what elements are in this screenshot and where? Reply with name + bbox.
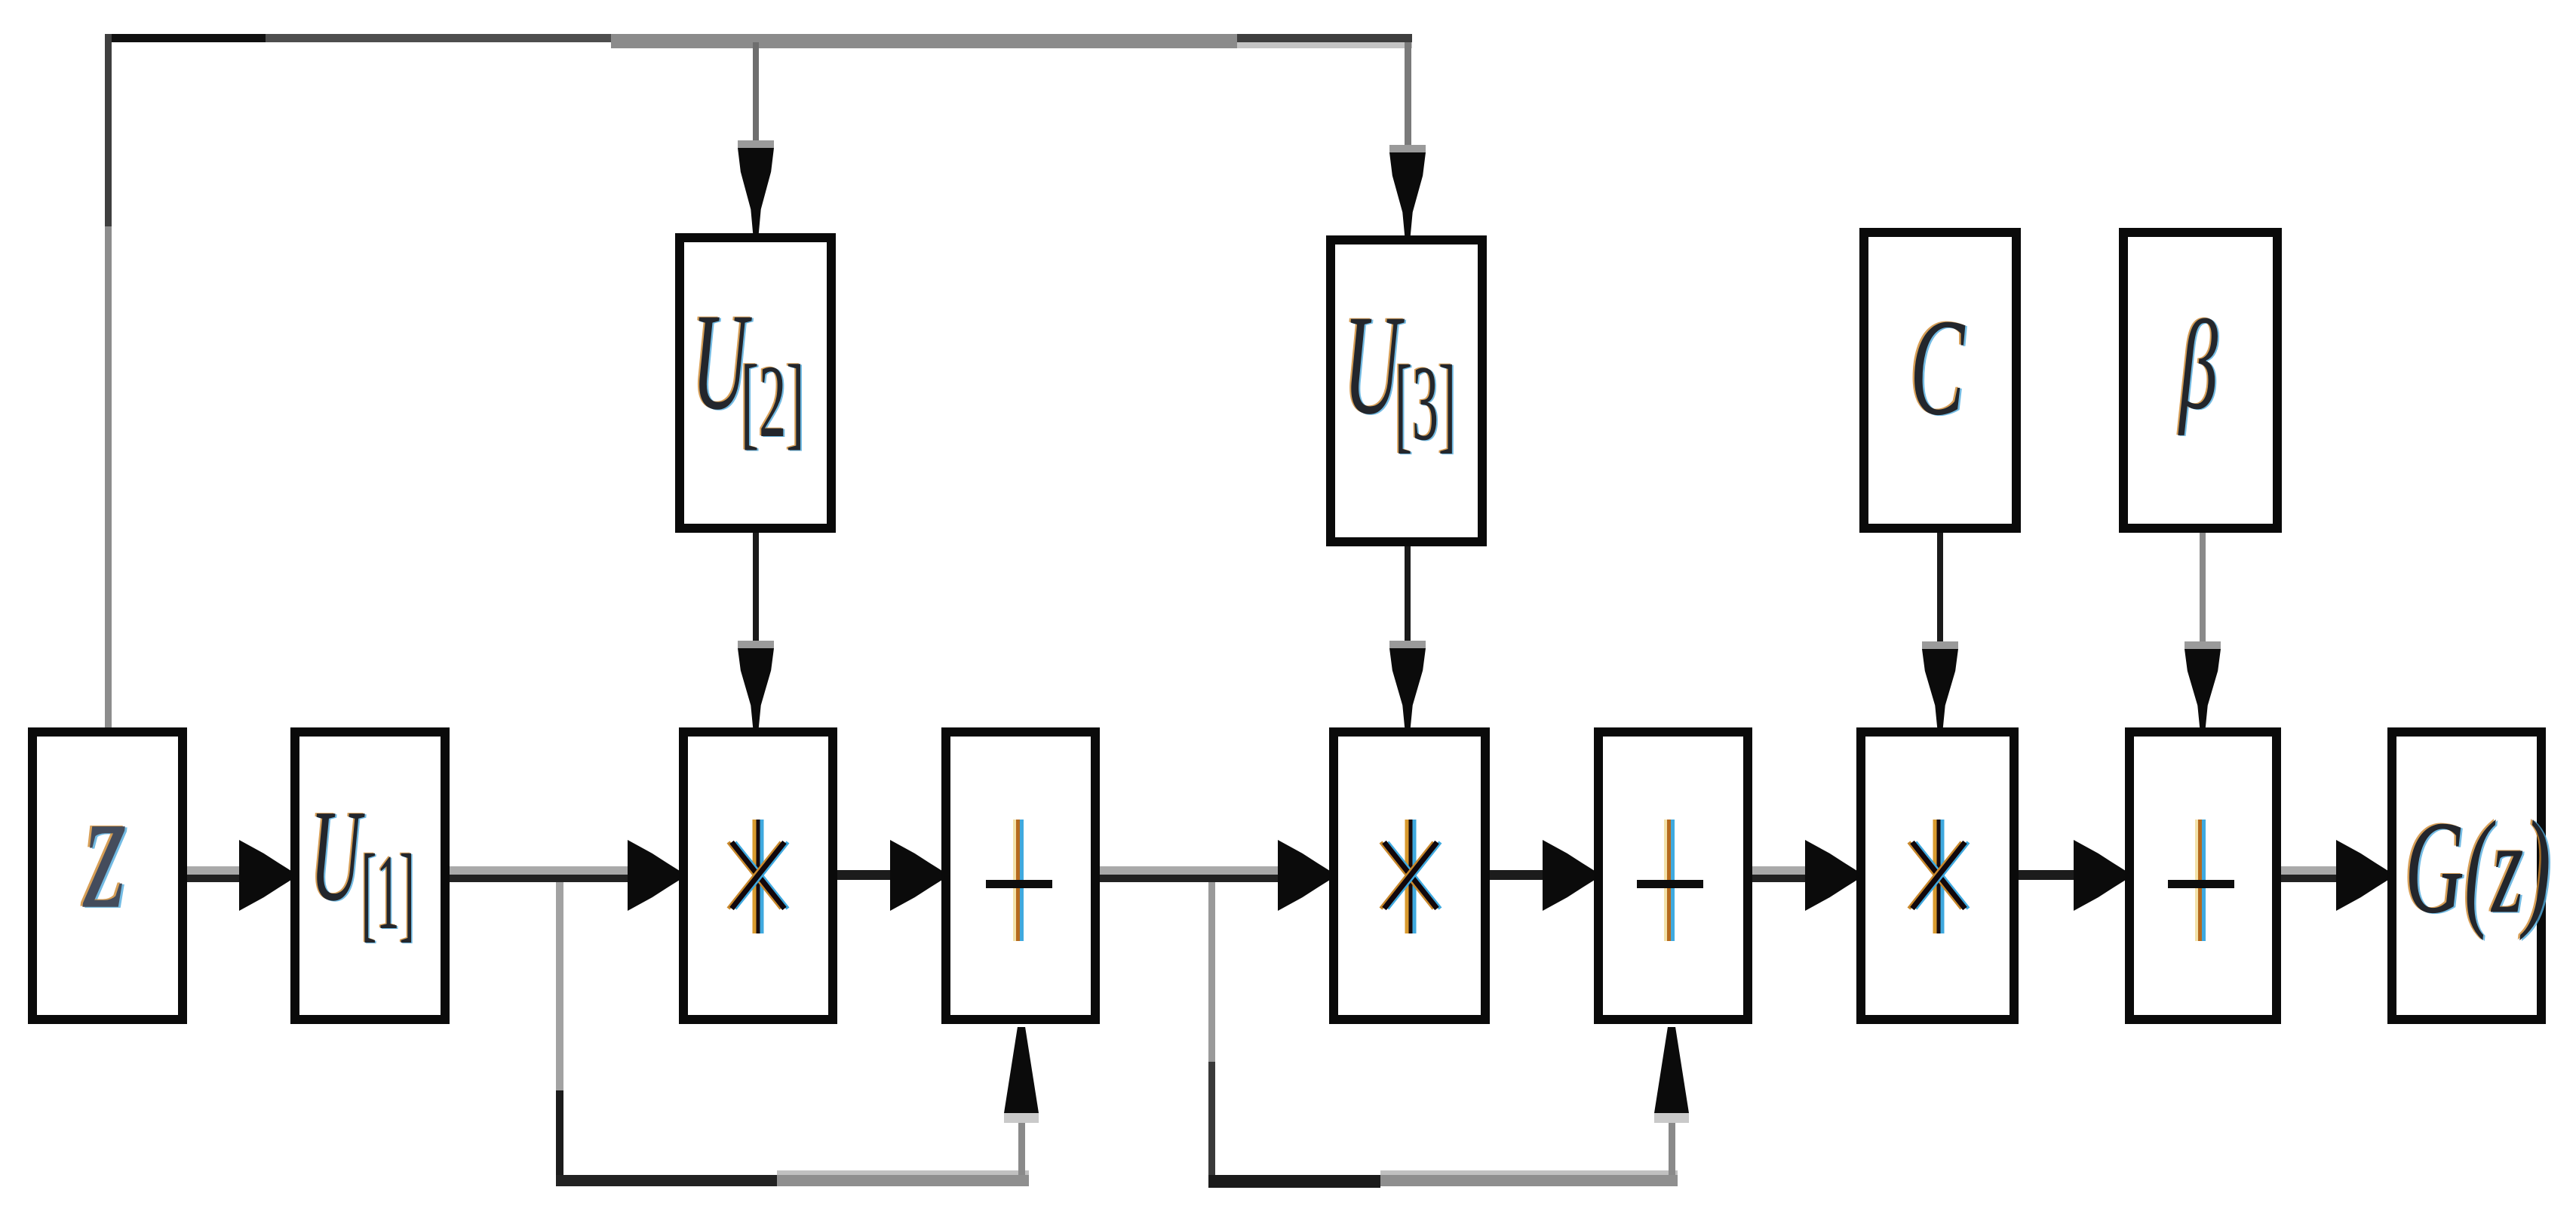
wire z to U1 <box>187 866 241 882</box>
arrowhead into Gz <box>2336 840 2387 911</box>
wire feedback left vertical lower (gray) <box>105 226 112 727</box>
arrowhead up into add2 <box>1654 1027 1689 1113</box>
box conv3 <box>1856 727 2019 1024</box>
box conv2 <box>1329 727 1490 1024</box>
label subscript 2 <box>741 349 804 454</box>
arrowhead into add1 <box>890 840 941 911</box>
arrowhead down into U3 <box>1389 145 1426 152</box>
arrowhead down into conv3 <box>1922 641 1958 649</box>
box add3 <box>2125 727 2281 1024</box>
box beta <box>2119 228 2282 533</box>
wire skip1 bottom rail left (black) <box>556 1175 777 1186</box>
wire conv1 to add1 <box>837 870 892 880</box>
wire skip1 vertical lower (black) <box>556 1090 563 1177</box>
wire skip2 vertical upper (gray) <box>1208 882 1215 1062</box>
label U of U2 <box>692 292 748 431</box>
wire skip2 bottom rail right (gray) <box>1380 1175 1678 1186</box>
box add1 <box>941 727 1100 1024</box>
arrowhead down into conv1 <box>738 641 774 648</box>
box add2 <box>1594 727 1752 1024</box>
box U3 <box>1326 235 1487 546</box>
wire C to conv3 (vertical) <box>1937 533 1943 643</box>
box U1 <box>290 727 450 1024</box>
box conv1 <box>679 727 837 1024</box>
wire top feedback segment B (dark gray) <box>266 34 611 42</box>
plus glyph in add1 <box>1013 820 1024 941</box>
wire top feedback segment D (dark gray) <box>1237 34 1412 42</box>
wire skip2 bottom rail right top band <box>1380 1170 1678 1175</box>
box z <box>28 727 187 1024</box>
box C <box>1859 228 2021 533</box>
asterisk glyph in conv2 <box>1354 815 1467 939</box>
plus glyph in add2 <box>1664 820 1675 941</box>
box U2 <box>675 233 836 533</box>
plus glyph in add3 <box>2195 820 2206 941</box>
wire beta to add3 (gray vertical) <box>2200 533 2206 643</box>
asterisk glyph in conv3 <box>1882 815 1995 939</box>
wire skip1 bottom rail right (gray) <box>777 1175 1029 1186</box>
label z in box z <box>84 761 127 936</box>
arrowhead down into conv2 <box>1389 641 1426 648</box>
arrowhead into add2 <box>1543 840 1594 911</box>
arrowhead up into add1 <box>1004 1027 1039 1113</box>
arrowhead into conv2 <box>1278 840 1329 911</box>
wire U3 to conv2 (vertical) <box>1405 546 1411 641</box>
wire conv2 to add2 <box>1490 870 1545 880</box>
arrowhead into conv1 <box>628 840 679 911</box>
label subscript 3 <box>1395 349 1456 457</box>
wire top feedback segment C (gray) <box>611 34 1237 48</box>
wire feedback left vertical upper (dark gray) <box>105 34 112 226</box>
wire top feedback segment A (black) <box>105 34 266 42</box>
wire U1 to conv1 <box>450 866 629 882</box>
wire add3 to Gz <box>2281 866 2338 882</box>
label beta in box beta <box>2179 302 2218 430</box>
arrowhead down into U2 <box>738 140 774 148</box>
wire drop into U2 (gray vertical) <box>753 42 759 142</box>
wire skip2 up stub (gray) <box>1669 1113 1675 1175</box>
wire skip1 vertical upper (gray) <box>556 882 563 1090</box>
wire skip1 up stub (gray) <box>1018 1113 1025 1175</box>
label subscript 1 <box>361 838 415 946</box>
wire skip2 bottom rail left (black) <box>1208 1175 1380 1188</box>
wire add2 to conv3 <box>1752 866 1807 882</box>
wire top feedback segment D underline (light gray) <box>1237 42 1412 48</box>
arrowhead into U1 <box>239 840 290 911</box>
label Gz output <box>2405 801 2551 934</box>
arrowhead into conv3 <box>1805 840 1856 911</box>
arrowhead into add3 <box>2074 840 2125 911</box>
wire U2 to conv1 (vertical) <box>753 533 759 641</box>
box Gz <box>2387 727 2546 1024</box>
wire drop into U3 (gray vertical) <box>1405 42 1411 146</box>
arrowhead down into add3 <box>2185 641 2221 649</box>
wire skip2 vertical lower (dark) <box>1208 1062 1215 1177</box>
wire skip1 bottom rail right top band <box>777 1170 1029 1175</box>
wire add1 to conv2 <box>1100 866 1280 882</box>
label U of U1 <box>310 790 361 921</box>
wire conv3 to add3 <box>2019 870 2076 880</box>
label U of U3 <box>1343 294 1400 437</box>
label C in box C <box>1910 298 1964 437</box>
asterisk glyph in conv1 <box>702 815 815 939</box>
